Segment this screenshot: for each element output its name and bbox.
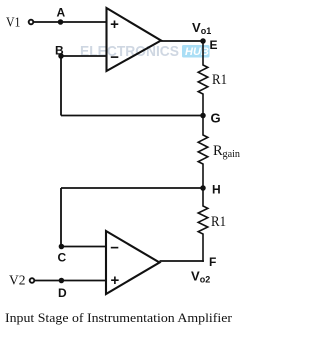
label Vo1 — [192, 20, 211, 36]
node C — [58, 244, 67, 265]
svg-text:F: F — [209, 255, 216, 269]
svg-text:+: + — [110, 16, 119, 33]
node H — [200, 183, 220, 197]
svg-text:gain: gain — [223, 149, 241, 160]
node A — [57, 6, 66, 25]
terminal V1 — [6, 16, 33, 31]
svg-text:−: − — [110, 49, 119, 66]
svg-text:R1: R1 — [212, 72, 227, 88]
wire B rail to node G — [61, 115, 203, 117]
node F — [209, 255, 216, 269]
wire B down to G rail — [60, 56, 62, 116]
svg-text:D: D — [58, 286, 67, 300]
node D — [58, 278, 67, 300]
svg-text:R1: R1 — [211, 214, 226, 230]
node E — [200, 38, 217, 52]
svg-text:V1: V1 — [6, 16, 21, 31]
svg-text:V2: V2 — [9, 274, 26, 289]
svg-text:+: + — [111, 272, 120, 289]
watermark ELECTRONICS — [80, 43, 179, 60]
wire V1 to op-amp U1 + input — [34, 21, 107, 23]
svg-text:o2: o2 — [200, 275, 211, 285]
svg-text:−: − — [110, 240, 119, 257]
svg-text:Input Stage of Instrumentation: Input Stage of Instrumentation Amplifier — [5, 310, 233, 325]
terminal V2 — [9, 274, 34, 289]
svg-text:V: V — [192, 20, 201, 35]
wire U1 output to node E — [161, 40, 203, 42]
wire B to op-amp U1 - input — [61, 55, 107, 57]
watermark HUB badge — [182, 45, 210, 58]
svg-text:R: R — [213, 143, 223, 159]
resistor R1 (top) — [198, 41, 227, 116]
op-amp U2 — [106, 231, 160, 294]
svg-text:HUB: HUB — [185, 46, 209, 58]
label Vo2 — [191, 269, 210, 285]
wire H rail to C branch — [61, 187, 203, 189]
node B — [55, 44, 64, 59]
caption — [5, 310, 233, 325]
svg-text:A: A — [57, 6, 66, 20]
wire down to node C — [60, 188, 62, 247]
resistor Rgain — [198, 116, 241, 189]
svg-text:H: H — [212, 183, 221, 197]
op-amp U1 — [107, 8, 162, 71]
svg-text:C: C — [58, 251, 67, 265]
wire C to op-amp U2 - input — [61, 246, 106, 248]
svg-text:G: G — [211, 111, 221, 126]
wire U2 output to corner F — [160, 260, 204, 262]
resistor R1 (bottom) — [198, 188, 226, 262]
svg-text:E: E — [210, 38, 218, 52]
svg-text:V: V — [191, 269, 200, 284]
node G — [200, 111, 220, 126]
svg-text:o1: o1 — [201, 26, 212, 36]
wire V2 to op-amp U2 + input — [35, 280, 106, 282]
